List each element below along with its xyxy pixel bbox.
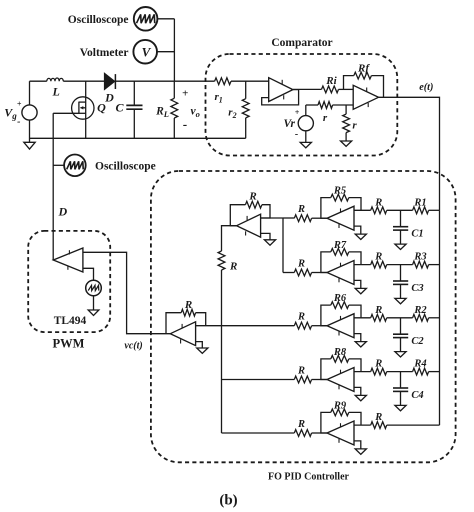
op-amp U1 (follower) <box>269 78 293 102</box>
resistor R (row R7 output) <box>294 258 327 276</box>
resistor R3 <box>413 252 440 268</box>
node bus rows 1-2 <box>282 218 284 273</box>
svg-text:-: - <box>183 117 187 132</box>
resistor R (branch) <box>218 226 237 326</box>
svg-text:R3: R3 <box>413 252 426 263</box>
resistor R (row R8 input) <box>354 359 387 375</box>
wire e(t) output <box>379 82 440 210</box>
wire inverter input to bus <box>261 217 283 219</box>
svg-text:Oscilloscope: Oscilloscope <box>68 14 129 26</box>
svg-text:R4: R4 <box>413 359 426 370</box>
wire U1 output <box>293 88 322 90</box>
svg-text:Rf: Rf <box>357 63 370 75</box>
ground (r) <box>341 141 352 146</box>
ground (row R5) <box>354 226 366 239</box>
op-amp row R6 <box>327 314 354 338</box>
wire node row R6 <box>387 317 413 319</box>
svg-text:R: R <box>374 305 382 316</box>
op-amp U5 (inverter) <box>237 214 261 237</box>
resistor R (row R8 output) <box>294 365 327 383</box>
svg-text:PWM: PWM <box>53 337 85 351</box>
ground (row R9) <box>354 441 366 454</box>
oscilloscope meter (gate) <box>53 155 156 177</box>
svg-text:r: r <box>323 112 328 124</box>
capacitor C3 <box>393 265 424 299</box>
resistor r (vertical) <box>343 105 358 141</box>
svg-text:R: R <box>374 197 382 208</box>
svg-text:Voltmeter: Voltmeter <box>80 47 129 59</box>
svg-text:C: C <box>115 101 124 115</box>
ground (inverter) <box>261 233 276 245</box>
op-amp row R9 <box>327 421 354 445</box>
svg-text:R: R <box>297 258 305 269</box>
svg-text:R: R <box>229 261 237 273</box>
resistor RL <box>155 81 178 138</box>
svg-text:+: + <box>295 108 300 117</box>
svg-text:R5: R5 <box>333 186 346 197</box>
svg-text:R9: R9 <box>333 400 347 411</box>
svg-text:R: R <box>374 412 382 423</box>
wire node row R7 <box>387 264 413 266</box>
FO PID controller box <box>151 171 456 483</box>
svg-text:(b): (b) <box>219 493 237 509</box>
svg-text:R: R <box>297 312 305 323</box>
resistor R8 (feedback) <box>321 347 361 380</box>
svg-text:C3: C3 <box>411 283 423 294</box>
svg-text:-: - <box>17 117 20 128</box>
voltmeter <box>80 40 175 64</box>
wire row4 output <box>222 379 295 381</box>
wire node row R5 <box>387 209 413 211</box>
svg-text:R7: R7 <box>333 240 347 251</box>
node vc(t) label <box>124 341 142 352</box>
op-amp U2 (error amp) <box>353 85 378 109</box>
sawtooth source (PWM) <box>83 268 101 296</box>
op-amp row R8 <box>327 368 354 392</box>
resistor R (row R6 input) <box>354 305 387 321</box>
svg-text:vc(t): vc(t) <box>124 341 142 352</box>
svg-text:C4: C4 <box>411 390 423 401</box>
op-amp U3 (TL494 comparator) <box>53 248 83 272</box>
svg-text:R: R <box>297 365 305 376</box>
svg-text:V: V <box>142 45 152 60</box>
ground (C4) <box>395 405 406 410</box>
resistor R7 (feedback) <box>321 240 361 273</box>
svg-text:TL494: TL494 <box>54 315 87 327</box>
capacitor C2 <box>393 318 424 352</box>
resistor R2 <box>413 305 440 321</box>
wire row5 output <box>222 432 295 434</box>
svg-text:r: r <box>352 120 357 132</box>
svg-text:R2: R2 <box>413 305 427 316</box>
resistor r (horizontal) <box>306 102 353 124</box>
resistor R (row R5 output) <box>294 204 327 222</box>
resistor R (inverter feedback) <box>230 191 270 226</box>
PWM label <box>53 337 85 351</box>
svg-text:R: R <box>297 419 305 430</box>
PWM box <box>28 231 110 332</box>
wire r1 to op-amp <box>231 80 269 82</box>
resistor Ri <box>322 75 339 93</box>
svg-text:Comparator: Comparator <box>271 37 332 49</box>
capacitor C <box>115 81 142 138</box>
ground (Vg) <box>24 120 35 149</box>
svg-text:R: R <box>297 204 305 215</box>
resistor R (row R6 output) <box>294 312 327 330</box>
svg-text:Oscilloscope: Oscilloscope <box>95 161 156 173</box>
wire vc(t) to PWM <box>83 252 170 333</box>
inductor L <box>47 78 64 99</box>
svg-text:R8: R8 <box>333 347 347 358</box>
wire meters riser <box>173 19 175 81</box>
svg-text:R: R <box>248 191 256 203</box>
source Vg <box>4 81 37 127</box>
wire U1 feedback <box>262 90 299 105</box>
wire row2 output to bus <box>283 272 294 274</box>
capacitor C1 <box>393 210 424 244</box>
capacitor C4 <box>393 372 424 406</box>
svg-text:-: - <box>295 129 298 140</box>
svg-text:R6: R6 <box>333 293 347 304</box>
resistor R (summing feedback) <box>166 299 206 334</box>
wire top rail <box>30 80 215 82</box>
source Vr <box>283 105 313 140</box>
svg-text:C1: C1 <box>411 229 423 240</box>
oscilloscope meter (top) <box>68 7 175 31</box>
ground (C3) <box>395 298 406 303</box>
resistor R (row R5 input) <box>354 197 387 213</box>
wire node row R8 <box>387 371 413 373</box>
svg-text:D: D <box>104 91 114 105</box>
resistor R (row R7 input) <box>354 252 387 268</box>
wire bottom rail <box>30 137 246 139</box>
wire row3 output <box>222 325 295 327</box>
caption (b) <box>219 493 237 509</box>
resistor R5 (feedback) <box>321 186 361 219</box>
wire row1 output <box>283 217 294 219</box>
node vo (+/- labels) <box>182 88 200 132</box>
svg-text:R: R <box>374 359 382 370</box>
ground (C1) <box>395 244 406 249</box>
svg-text:Vr: Vr <box>283 118 295 130</box>
wire Ri to U2 <box>339 88 354 90</box>
svg-text:R1: R1 <box>413 197 426 208</box>
comparator box <box>206 37 398 156</box>
svg-text:Ri: Ri <box>325 75 337 87</box>
resistor R (row R9 output) <box>294 419 327 437</box>
op-amp U4 (summing) <box>170 322 195 346</box>
svg-text:L: L <box>52 85 60 99</box>
svg-text:C2: C2 <box>411 336 424 347</box>
wire summing input <box>196 325 222 327</box>
op-amp row R5 <box>327 206 354 230</box>
svg-text:e(t): e(t) <box>419 82 433 93</box>
ground (sawtooth) <box>88 296 99 316</box>
svg-text:R: R <box>374 252 382 263</box>
diode D <box>104 73 115 104</box>
ground (row R6) <box>354 334 366 347</box>
resistor Rf <box>344 63 384 98</box>
resistor R1 <box>413 197 440 213</box>
transistor Q (MOSFET) <box>53 81 106 138</box>
svg-text:D: D <box>57 205 67 219</box>
resistor R6 (feedback) <box>321 293 361 326</box>
node D label <box>57 205 67 219</box>
resistor R (row R9 input) <box>354 412 387 428</box>
node summing junction <box>221 326 223 433</box>
ground (row R8) <box>354 387 366 400</box>
wire gate drive (D node) <box>52 113 54 260</box>
wire e(t) bus <box>439 210 441 425</box>
ground (Vr) <box>300 131 311 148</box>
wire row R9 input to bus <box>387 424 440 426</box>
resistor r1 <box>215 78 232 105</box>
op-amp row R7 <box>327 261 354 285</box>
ground (C2) <box>395 352 406 357</box>
svg-text:+: + <box>17 100 22 109</box>
svg-text:R: R <box>184 299 192 311</box>
resistor R9 (feedback) <box>321 400 361 433</box>
resistor R4 <box>413 359 440 375</box>
svg-text:+: + <box>182 88 188 100</box>
svg-text:FO PID Controller: FO PID Controller <box>268 472 349 483</box>
resistor r2 <box>228 81 249 138</box>
ground (summing) <box>196 342 208 354</box>
ground (row R7) <box>354 280 366 293</box>
